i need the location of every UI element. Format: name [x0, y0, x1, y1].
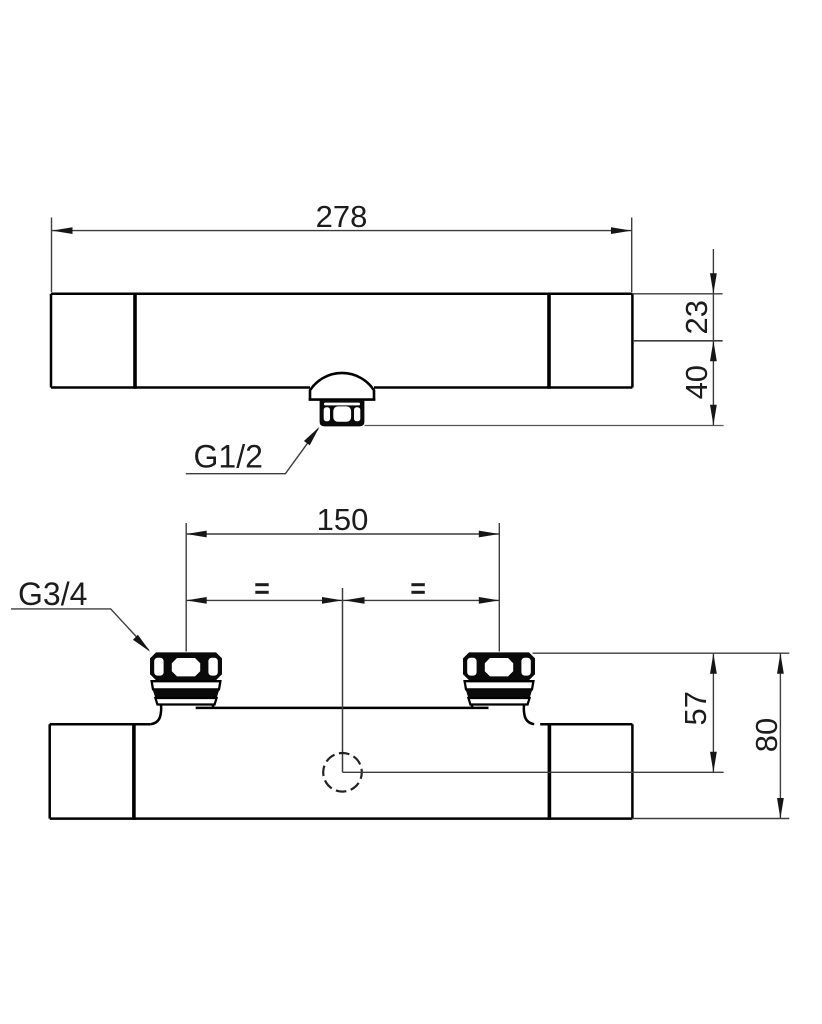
right inlet nut G3/4 (black body)	[463, 652, 535, 680]
equal-spacing dimension line right	[343, 599, 500, 601]
dimension 150: extension line left	[185, 523, 187, 652]
left inlet boss outline	[151, 705, 161, 725]
dimension 23/40: vertical dimension line	[712, 249, 714, 425]
dimension 278: left arrowhead	[52, 227, 73, 234]
dimension 150: right arrowhead	[479, 531, 500, 538]
dimension 57: top arrowhead	[710, 653, 717, 674]
dimension 278: dimension line	[52, 230, 632, 232]
horizontal line from circle center (57 extension)	[343, 771, 724, 773]
svg-text:23: 23	[679, 300, 714, 334]
dimension 278: extension line right	[631, 218, 633, 293]
bar body outline (front view)	[51, 294, 632, 388]
left end-cap joint line (bottom view)	[132, 723, 136, 820]
back plate edge between bosses	[196, 707, 489, 710]
label G1/2 leader arrowhead	[304, 427, 320, 446]
left inlet boss inner step	[212, 703, 215, 709]
dimension 40: extension line at nut bottom	[365, 425, 724, 427]
left inlet flange upper band	[152, 681, 221, 689]
equal symbol left	[255, 583, 268, 594]
equal-spacing center-left arrowhead	[322, 597, 343, 604]
dimension 57: dimension line	[712, 653, 714, 772]
left inlet nut center facet	[172, 658, 200, 676]
label G3/4 leader arrowhead	[133, 635, 150, 652]
dimension 80: bottom arrowhead	[777, 798, 784, 819]
equal-spacing dimension line left	[186, 599, 342, 601]
label G3/4 leader underline	[11, 609, 149, 650]
equal symbol right	[411, 583, 424, 594]
equal-spacing left arrowhead	[186, 597, 207, 604]
body outline (bottom view)	[50, 724, 633, 818]
outlet dashed circle (bottom view)	[323, 753, 362, 792]
right inlet nut right facet	[521, 658, 530, 676]
dimension 80: top arrowhead	[777, 653, 784, 674]
right inlet nut center facet	[485, 658, 513, 676]
left inlet flange black band	[153, 689, 220, 698]
outlet nut top chamfer slit	[324, 403, 360, 406]
left inlet nut G3/4 (black body)	[150, 652, 222, 680]
dimension 278: extension line left	[51, 218, 53, 293]
dimension 57/80: top extension line	[533, 652, 790, 654]
svg-text:278: 278	[316, 199, 368, 234]
outlet nut center facet	[333, 406, 351, 421]
left inlet nut left facet	[154, 658, 163, 676]
dimension 80: bottom extension line	[633, 818, 789, 820]
right inlet flange black band	[466, 689, 533, 698]
dimension 80: dimension line	[779, 653, 781, 818]
dimension 278: right arrowhead	[611, 227, 632, 234]
svg-text:150: 150	[317, 502, 369, 537]
dimension 57: bottom arrowhead	[710, 752, 717, 773]
dimension 23: top arrowhead (outside, pointing down)	[710, 273, 717, 294]
right inlet boss inner step	[471, 703, 474, 709]
center axis line	[342, 588, 344, 772]
svg-text:G1/2: G1/2	[194, 438, 263, 474]
dimension 150: left arrowhead	[186, 531, 207, 538]
dimension 40: bottom arrowhead (pointing down)	[710, 405, 717, 426]
outlet flange base line	[309, 398, 376, 401]
equal-spacing right arrowhead	[479, 597, 500, 604]
dimension 150: extension line right	[498, 523, 500, 652]
right end-cap joint line	[547, 293, 551, 389]
equal-spacing center-right arrowhead	[344, 597, 365, 604]
outlet nut right facet	[354, 407, 360, 421]
outlet nut left facet	[324, 407, 330, 421]
svg-text:40: 40	[679, 365, 714, 399]
svg-text:57: 57	[678, 691, 713, 725]
right end-cap joint line (bottom view)	[548, 723, 552, 820]
right inlet nut left facet	[467, 658, 476, 676]
dimension 150: dimension line	[186, 533, 499, 535]
svg-text:80: 80	[749, 718, 784, 752]
dimension 23/40: extension line at bar top	[632, 293, 722, 295]
right inlet flange upper band	[465, 681, 534, 689]
outlet nut G1/2 (black body)	[320, 400, 365, 427]
right inlet boss outline	[524, 705, 534, 725]
outlet dome (front view)	[310, 373, 374, 400]
left inlet nut right facet	[208, 658, 217, 676]
dimension 23/40: extension line at bar mid	[633, 340, 723, 342]
label G1/2 leader underline	[186, 429, 318, 474]
dimension 23/40: shared arrowhead (pointing up, tip at mid line)	[710, 341, 717, 362]
left inlet flange lower band	[155, 698, 216, 705]
svg-text:G3/4: G3/4	[18, 576, 87, 612]
right inlet flange lower band	[468, 698, 529, 705]
left end-cap joint line	[133, 293, 137, 389]
